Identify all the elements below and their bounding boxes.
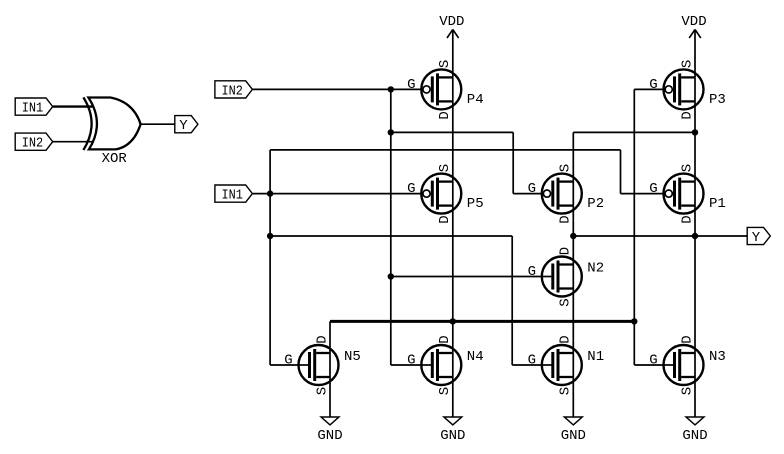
svg-text:IN1: IN1 — [22, 101, 43, 117]
svg-text:XOR: XOR — [102, 151, 128, 167]
svg-text:G: G — [407, 352, 415, 368]
svg-text:P3: P3 — [709, 92, 726, 108]
wire IN2 branch to P2 gate (horiz2) — [513, 193, 542, 195]
svg-text:VDD: VDD — [681, 14, 706, 30]
transistor P1 (PMOS) — [649, 164, 726, 224]
junction Y/P2-N2 drains — [570, 233, 576, 239]
svg-text:S: S — [437, 387, 453, 395]
wire P4 drain to P5 source — [452, 101, 454, 181]
svg-text:GND: GND — [440, 428, 465, 444]
svg-text:N5: N5 — [344, 349, 361, 365]
junction IN1/N1 branch — [267, 233, 273, 239]
svg-text:Y: Y — [752, 230, 761, 246]
svg-text:N3: N3 — [709, 349, 726, 365]
wire Y horizontal — [573, 235, 695, 237]
junction Y/P1-N3 drains — [692, 233, 698, 239]
wire node K horizontal — [573, 131, 695, 133]
svg-text:D: D — [437, 215, 453, 223]
wire IN1 branch to N1 gate (vert) — [511, 236, 513, 365]
svg-text:D: D — [558, 335, 574, 343]
wire IN2 branch to P2 gate (vert) — [512, 132, 514, 193]
input flag IN2 (gate) — [15, 133, 53, 152]
svg-text:N2: N2 — [587, 261, 604, 277]
svg-text:G: G — [407, 181, 415, 197]
svg-text:IN2: IN2 — [222, 83, 243, 99]
ground symbol GND — [561, 377, 586, 444]
wire IN1 branch to P1 gate (horiz2) — [621, 193, 664, 195]
junction M/P5-N4 drains — [450, 318, 456, 324]
svg-text:S: S — [314, 387, 330, 395]
svg-text:N1: N1 — [587, 349, 604, 365]
wire P2 source vertical — [572, 132, 574, 181]
svg-text:D: D — [314, 335, 330, 343]
transistor N5 (NMOS) — [284, 335, 361, 395]
svg-text:D: D — [679, 111, 695, 119]
wire N2 source to N1 drain — [572, 289, 574, 354]
output flag Y (gate) — [175, 116, 198, 135]
svg-text:D: D — [437, 335, 453, 343]
svg-text:G: G — [649, 352, 657, 368]
junction IN2/N2 gate — [388, 273, 394, 279]
power symbol VDD — [681, 14, 706, 77]
ground symbol GND — [682, 377, 707, 444]
wire P3 drain to P1 source — [694, 101, 696, 181]
junction IN2/P2 branch — [388, 129, 394, 135]
svg-text:G: G — [528, 352, 536, 368]
svg-text:P2: P2 — [587, 196, 604, 212]
svg-text:S: S — [558, 387, 574, 395]
svg-text:G: G — [649, 181, 657, 197]
svg-text:S: S — [558, 298, 574, 306]
wire IN2 branch to N2 gate — [391, 276, 542, 278]
wire IN1 branch to N1 gate (horiz) — [270, 235, 512, 237]
svg-text:GND: GND — [317, 428, 342, 444]
svg-text:S: S — [558, 164, 574, 172]
svg-text:G: G — [284, 352, 292, 368]
wire node M to P3 gate (horiz) — [634, 88, 663, 90]
wire IN1 vertical — [269, 150, 271, 365]
wire gate output to Y — [141, 123, 175, 125]
wire P5 drain to N4 drain — [452, 206, 454, 353]
svg-text:S: S — [437, 60, 453, 68]
wire IN1 branch to N5 gate — [270, 364, 298, 366]
wire Y to output flag — [695, 235, 747, 237]
input flag IN2 — [215, 81, 253, 100]
wire IN2 flag to gate — [53, 141, 93, 143]
wire IN1 branch to N1 gate (horiz2) — [512, 364, 542, 366]
transistor P5 (PMOS) — [407, 164, 484, 224]
wire IN2 branch to P2 gate (horiz) — [391, 131, 513, 133]
ground symbol GND — [317, 377, 342, 444]
power symbol VDD — [439, 14, 464, 77]
wire node M to N3 gate (horiz) — [634, 364, 663, 366]
ground symbol GND — [440, 377, 465, 444]
svg-text:D: D — [437, 111, 453, 119]
svg-text:VDD: VDD — [439, 14, 464, 30]
junction node K — [692, 129, 698, 135]
junction IN2/P4 gate — [388, 86, 394, 92]
svg-text:S: S — [679, 60, 695, 68]
svg-text:D: D — [679, 335, 695, 343]
svg-text:N4: N4 — [467, 349, 484, 365]
transistor N1 (NMOS) — [528, 335, 605, 395]
svg-text:Y: Y — [179, 118, 188, 134]
transistor N4 (NMOS) — [407, 335, 484, 395]
transistor N2 (NMOS) — [528, 247, 605, 307]
svg-text:D: D — [558, 247, 574, 255]
wire IN1 branch to P1 gate (vert) — [620, 150, 622, 194]
junction M/P3-N3 gates — [631, 318, 637, 324]
wire N5 drain to node M — [329, 321, 331, 353]
input flag IN1 (gate) — [15, 98, 53, 117]
svg-text:IN1: IN1 — [222, 188, 243, 204]
junction IN1/P5 gate — [267, 190, 273, 196]
svg-text:D: D — [558, 215, 574, 223]
output flag Y — [747, 227, 770, 246]
svg-text:D: D — [679, 215, 695, 223]
wire node M to P3 gate (vert) — [633, 89, 635, 365]
XOR gate symbol U1 — [83, 97, 140, 150]
wire IN1 flag to gate — [53, 105, 93, 107]
svg-text:G: G — [649, 77, 657, 93]
wire P2 drain to N2 drain — [572, 206, 574, 265]
svg-text:S: S — [679, 164, 695, 172]
svg-text:P4: P4 — [467, 92, 484, 108]
svg-text:S: S — [437, 164, 453, 172]
transistor P2 (PMOS) — [528, 164, 605, 224]
wire node M horizontal (thick) — [330, 320, 634, 323]
transistor N3 (NMOS) — [649, 335, 726, 395]
wire IN1 branch to P1 gate (horiz) — [270, 149, 620, 151]
transistor P4 (PMOS) — [407, 60, 484, 120]
transistor P3 (PMOS) — [649, 60, 726, 120]
svg-text:S: S — [679, 387, 695, 395]
wire IN2 flag to P4 gate — [252, 88, 421, 90]
wire IN2 vertical — [390, 89, 392, 365]
svg-text:GND: GND — [682, 428, 707, 444]
wire P1 drain to N3 drain — [694, 206, 696, 353]
svg-text:G: G — [528, 181, 536, 197]
wire IN2 branch to N4 gate — [391, 364, 422, 366]
svg-text:P5: P5 — [467, 196, 484, 212]
svg-text:G: G — [407, 77, 415, 93]
input flag IN1 — [215, 185, 253, 204]
svg-text:GND: GND — [561, 428, 586, 444]
svg-text:IN2: IN2 — [22, 136, 43, 152]
svg-text:P1: P1 — [709, 196, 726, 212]
svg-text:G: G — [528, 264, 536, 280]
wire IN1 flag to P5 gate — [253, 193, 421, 195]
